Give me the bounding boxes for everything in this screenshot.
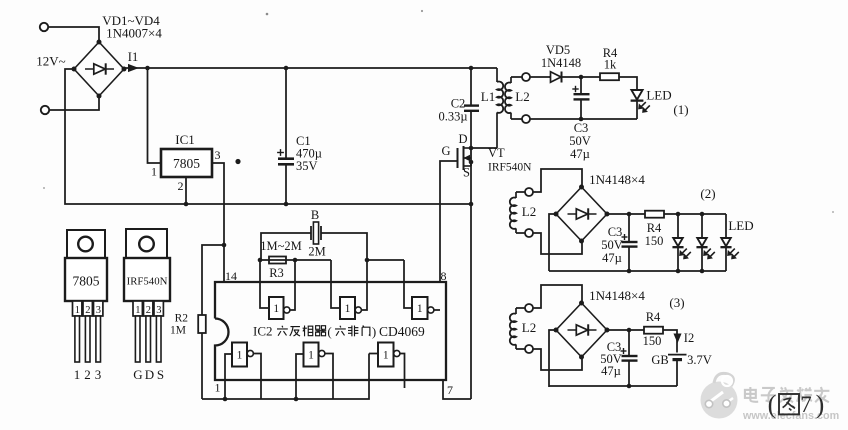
junction C3 bottom section2 (627, 269, 632, 274)
svg-text:(: ( (768, 390, 777, 419)
wire +12V bus (124, 67, 497, 69)
svg-text:1: 1 (237, 350, 243, 362)
svg-text:): ) (372, 324, 376, 339)
junction C3 bottom section1 (579, 117, 584, 122)
arrow I2 (674, 334, 681, 342)
junction LED2 top (700, 212, 705, 217)
inverter gate 1 output wire (289, 260, 295, 310)
capacitor C2 plates (464, 104, 479, 106)
regulator IC1 7805 box (161, 149, 212, 177)
junction C3 top section3 (627, 328, 632, 333)
junction rail gate4 in (223, 397, 228, 402)
svg-text:IC2: IC2 (253, 324, 273, 339)
svg-text:1: 1 (135, 305, 140, 316)
package IRF540N pin boxes (133, 301, 142, 316)
terminal section1 top (511, 76, 522, 78)
wire minus rail section2 (549, 270, 726, 272)
capacitor C3 section3 (628, 330, 630, 356)
junction C1 bottom on ground bus (284, 202, 289, 207)
inverter gate 3 output wire (434, 309, 440, 311)
oscillator bottom rail (202, 354, 369, 400)
inverter gate 2 input wire (331, 260, 340, 308)
svg-text:G: G (441, 144, 450, 158)
svg-text:VD5: VD5 (546, 43, 570, 57)
transistor VT IRF540N symbol (457, 148, 459, 168)
svg-text:7805: 7805 (73, 274, 100, 289)
junction C3 bottom section3 (627, 384, 632, 389)
svg-text:C3: C3 (574, 121, 589, 135)
capacitor C1 wires (285, 68, 287, 158)
capacitor C1 plates (278, 157, 294, 160)
junction C3 top section2 (627, 212, 632, 217)
wire IC1 pin2 to ground bus (185, 177, 187, 204)
junction C2 top (469, 66, 474, 71)
svg-text:I2: I2 (684, 331, 694, 345)
watermark text dianzifashaoyou (745, 390, 756, 398)
svg-text:1N4007×4: 1N4007×4 (106, 26, 162, 41)
svg-text:1M~2M: 1M~2M (260, 239, 302, 253)
scan specks (266, 13, 269, 16)
wire terminal-top to bridge (48, 27, 99, 42)
wire IC1 pin3 output (212, 163, 224, 282)
svg-text:1k: 1k (604, 58, 617, 72)
svg-text:3: 3 (95, 367, 102, 382)
svg-text:1: 1 (273, 303, 279, 315)
svg-text:1: 1 (417, 303, 423, 315)
resistor R3 (269, 257, 286, 264)
svg-text:D: D (458, 132, 467, 146)
svg-text:50V: 50V (569, 134, 591, 148)
wire crystal right (321, 233, 367, 260)
svg-text:R4: R4 (647, 221, 662, 235)
terminal section3 bottom (516, 348, 525, 350)
junction LED1 bottom (676, 269, 681, 274)
diode VD5 (549, 76, 562, 78)
wire LED to bottom rail section1 (636, 101, 638, 119)
inverter gate 3 (412, 297, 428, 319)
junction crystal right / gate2 out (365, 258, 370, 263)
bridge rectifier 1N4148x4 section3 (556, 303, 607, 357)
LED 2 section2 (701, 214, 703, 238)
inverter gate 3 input wire (404, 260, 412, 308)
svg-text:(: ( (327, 324, 331, 339)
svg-text:1: 1 (383, 350, 389, 362)
svg-text:150: 150 (643, 334, 662, 348)
svg-text:G: G (133, 367, 142, 382)
wire R3 node left segment (260, 259, 331, 261)
svg-text:1: 1 (308, 350, 314, 362)
node dot (asterisk) (235, 159, 240, 164)
svg-text:LED: LED (728, 218, 753, 233)
junction 7805 pin2 on ground bus (184, 202, 189, 207)
inverter gate 5 input wire (296, 354, 304, 399)
junction MOSFET drain D (469, 146, 474, 151)
capacitor C2 wire lower (470, 111, 472, 148)
terminal section2 top (516, 191, 525, 193)
inverter gate 1 (269, 297, 284, 319)
svg-text:L2: L2 (522, 204, 536, 219)
wire R2 bottom to oscillator rail (201, 333, 203, 399)
package drawing 7805 tab (67, 230, 105, 258)
wire plus rail section2 (607, 213, 726, 215)
terminal section2 bottom (516, 232, 525, 234)
wire gate2-out to gate3-in segment (367, 259, 404, 261)
junction pin3 branch to R2 (222, 243, 227, 248)
terminal section1 bottom (511, 118, 522, 120)
inverter gate 4 output wire (254, 354, 262, 400)
arrow I1 (129, 65, 138, 72)
svg-text:50V: 50V (601, 238, 623, 252)
svg-text:1: 1 (215, 381, 221, 395)
package drawing IRF540N tab (126, 229, 167, 258)
inverter gate 4 input wire (225, 354, 232, 399)
package 7805 legs (75, 316, 80, 362)
svg-text:1: 1 (74, 367, 81, 382)
svg-text:3: 3 (156, 305, 161, 316)
junction R3 right / gate1 out (293, 258, 298, 263)
svg-text:47µ: 47µ (602, 251, 622, 265)
wire section2 bottom jog to bridge (533, 233, 582, 254)
capacitor C3 section1 (580, 77, 582, 94)
svg-text:(2): (2) (700, 186, 715, 201)
inverter gate 2 (340, 297, 355, 319)
svg-text:I1: I1 (128, 50, 138, 64)
wire bridge minus to bottom rail section2 (549, 214, 556, 271)
crystal B (310, 226, 312, 240)
wire pin7 to source rail (443, 380, 471, 399)
wire R4 to LED section1 (619, 77, 637, 90)
svg-text:7805: 7805 (173, 156, 200, 171)
svg-text:C3: C3 (608, 225, 623, 239)
wire section1 top rail (530, 76, 600, 78)
svg-text:1N4148×4: 1N4148×4 (589, 288, 645, 303)
inverter gate 6 output wire stub (400, 354, 405, 389)
junction C1 top (284, 66, 289, 71)
wire IC1 pin3 to R2 top jog (202, 245, 224, 315)
resistor R4 section3 (644, 327, 663, 334)
svg-text:8: 8 (441, 269, 447, 283)
svg-text:L2: L2 (522, 320, 536, 335)
wire crystal left (261, 233, 311, 260)
wire section3 top jog to bridge (533, 285, 582, 308)
inductor L2 section3 (515, 308, 517, 314)
svg-text:www.elecfans.com: www.elecfans.com (742, 410, 839, 422)
wire L1 bottom to MOSFET drain (471, 147, 497, 149)
resistor R4 section2 (645, 211, 664, 218)
svg-text:L1: L1 (481, 89, 495, 104)
svg-text:2: 2 (85, 305, 90, 316)
svg-text:47µ: 47µ (570, 147, 590, 161)
junction rail gate5 in (294, 397, 299, 402)
wire source down to pin7 rail (470, 162, 472, 399)
wire section3 bottom jog to bridge (533, 349, 582, 370)
bridge rectifier 1N4148x4 section2 (556, 187, 607, 241)
svg-text:R4: R4 (646, 310, 661, 324)
junction +12V at IC1 branch (145, 66, 150, 71)
svg-text:S: S (157, 367, 164, 382)
capacitor C3 section2 (628, 214, 630, 242)
svg-text:CD4069: CD4069 (379, 324, 425, 339)
junction MOSFET source on ground bus (469, 202, 474, 207)
svg-text:150: 150 (645, 234, 664, 248)
svg-text:2: 2 (146, 305, 151, 316)
svg-text:3: 3 (96, 305, 101, 316)
svg-text:IRF540N: IRF540N (488, 162, 532, 174)
svg-text:IRF540N: IRF540N (127, 276, 168, 288)
package IRF540N body (124, 258, 170, 301)
svg-text:7: 7 (800, 392, 812, 417)
svg-text:LED: LED (646, 88, 671, 103)
wire bridge minus to bottom rail section3 (549, 330, 556, 387)
svg-text:(3): (3) (669, 295, 684, 310)
LED 1 section2 (677, 214, 679, 238)
svg-text:47µ: 47µ (601, 364, 621, 378)
svg-text:(1): (1) (673, 102, 688, 117)
svg-text:1N4148×4: 1N4148×4 (589, 172, 645, 187)
svg-text:1N4148: 1N4148 (541, 56, 581, 70)
wire bridge left vertex to ground bus (65, 69, 471, 204)
svg-text:7: 7 (447, 383, 453, 397)
terminal input bottom (41, 106, 49, 114)
package IRF540N legs (135, 316, 140, 362)
svg-text:R2: R2 (175, 313, 189, 325)
capacitor C2 wire upper (470, 68, 472, 106)
package IRF540N hole (139, 237, 154, 252)
resistor R4 section1 (600, 73, 619, 80)
junction LED2 bottom (700, 269, 705, 274)
watermark logo (701, 382, 738, 419)
plus sign C1 (277, 152, 284, 154)
svg-text:L2: L2 (515, 89, 529, 104)
junction crystal-R3 left (258, 258, 263, 263)
terminal input top (40, 23, 48, 31)
svg-text:S: S (463, 166, 470, 180)
inverter gate 6 (378, 343, 394, 367)
LED 3 section2 (725, 214, 727, 238)
svg-text:1M: 1M (170, 325, 186, 337)
svg-text:IC1: IC1 (175, 132, 195, 147)
inverter gate 1 input wire (260, 260, 269, 308)
battery GB 3.7V (668, 354, 687, 356)
junction MOSFET source S (469, 160, 474, 165)
inverter gate 6 input wire (369, 353, 378, 355)
wire minus rail section3 (549, 385, 677, 387)
inverter gate 5 output wire (325, 354, 333, 400)
LED section1 (631, 90, 642, 100)
svg-text:14: 14 (225, 269, 237, 283)
resistor R2 1M (198, 315, 206, 333)
junction LED1 top (676, 212, 681, 217)
svg-text:35V: 35V (296, 159, 318, 173)
svg-text:0.33µ: 0.33µ (438, 110, 467, 124)
terminal section3 top (516, 307, 525, 309)
inverter gate 2 output wire (362, 260, 368, 310)
svg-text:1: 1 (345, 303, 351, 315)
inductor L2 section1 (510, 77, 512, 83)
wire terminal-bottom to bridge (49, 96, 99, 110)
svg-text:3: 3 (215, 148, 221, 162)
svg-text:12V~: 12V~ (36, 54, 65, 69)
wire plus rail section3 (607, 330, 677, 353)
svg-text:GB: GB (651, 353, 668, 367)
svg-text:2M: 2M (308, 245, 325, 259)
junction C3 top section1 (579, 75, 584, 80)
wire IC1 pin1 from +12V bus (148, 68, 162, 163)
svg-text:R3: R3 (269, 266, 284, 280)
bridge rectifier VD1~VD4 (74, 42, 124, 96)
svg-text:C2: C2 (451, 97, 466, 111)
IC2 CD4069 box (215, 282, 446, 380)
wire gate to IC2 pin8 (440, 161, 457, 282)
inverter gate 4 (232, 343, 247, 367)
svg-text:1: 1 (75, 305, 80, 316)
svg-text:B: B (311, 208, 319, 222)
package 7805 hole (78, 237, 93, 252)
package 7805 body (65, 258, 107, 301)
svg-text:D: D (145, 367, 154, 382)
wire section1 bottom rail (530, 118, 637, 120)
svg-text:): ) (816, 390, 825, 419)
svg-text:2: 2 (178, 179, 184, 193)
inverter gate 5 (304, 343, 319, 367)
wire section2 top jog to bridge (533, 169, 582, 192)
svg-text:VT: VT (488, 146, 505, 160)
inductor L1 (496, 68, 498, 82)
svg-text:2: 2 (84, 367, 91, 382)
svg-text:1: 1 (151, 165, 157, 179)
package 7805 pin boxes (73, 301, 82, 316)
svg-text:3.7V: 3.7V (687, 353, 712, 367)
inductor L2 section2 (515, 192, 517, 198)
